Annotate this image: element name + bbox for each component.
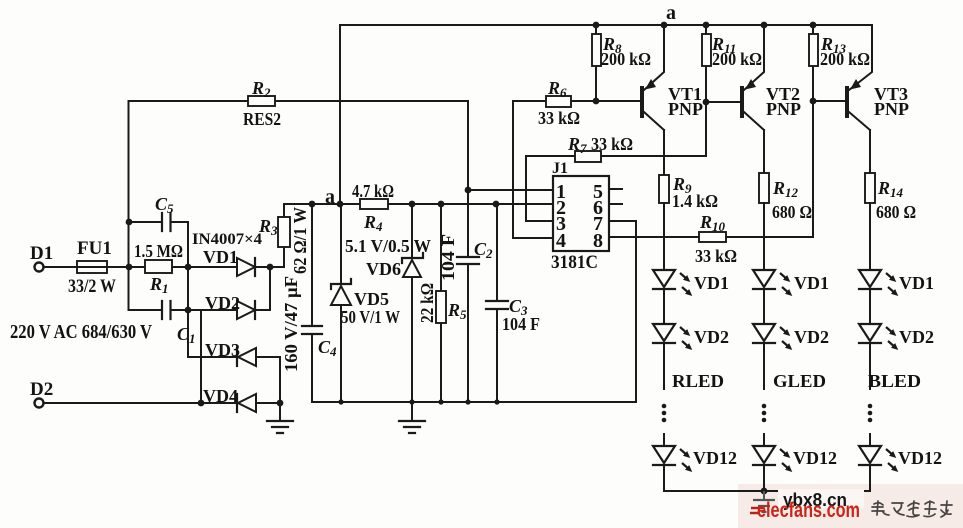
node a row (wire from R3 to IC pin 2) (284, 203, 553, 205)
svg-text:680 Ω: 680 Ω (772, 202, 812, 222)
svg-text:VD5: VD5 (354, 289, 389, 309)
capacitor C3 104F (496, 204, 498, 402)
wire pin 7 to supply rail (609, 221, 636, 402)
wire R2 right end down to pin 1 row (467, 101, 469, 256)
wire fuse to R1 node (107, 266, 129, 268)
junction return/ground (761, 488, 768, 495)
wire LED return rail (664, 490, 870, 492)
wire VD2 node down to D2 line (200, 310, 202, 403)
svg-text:PNP: PNP (874, 99, 909, 119)
zener diode VD6 5.1V/0.5W (411, 204, 413, 402)
svg-text:BLED: BLED (868, 371, 921, 391)
LED VD2 (green string) (753, 324, 775, 341)
svg-text:680 Ω: 680 Ω (876, 202, 916, 222)
resistor R1 1.5 MOhm (129, 266, 188, 268)
svg-text:PNP: PNP (668, 99, 703, 119)
node dots column 1 (662, 404, 667, 409)
svg-text:FU1: FU1 (77, 238, 112, 259)
watermark background tint (738, 484, 963, 528)
svg-text:200 kΩ: 200 kΩ (601, 49, 651, 69)
wire VT3 base row (813, 100, 845, 102)
svg-text:D2: D2 (30, 379, 53, 400)
svg-text:8: 8 (593, 230, 603, 252)
resistor R7 33k (526, 102, 706, 156)
resistor R2 RES2 (129, 100, 469, 102)
LED VD12 (blue string) (869, 434, 871, 446)
label Chinese watermark strokes (872, 501, 952, 517)
svg-text:200 kΩ: 200 kΩ (820, 49, 870, 69)
svg-text:D1: D1 (30, 243, 53, 264)
resistor R14 680 (865, 173, 875, 203)
svg-text:VD1: VD1 (694, 273, 729, 293)
svg-text:RES2: RES2 (243, 109, 281, 129)
resistor R10 33k (699, 232, 726, 242)
junction R11/R7/VT2 base (703, 99, 710, 106)
svg-text:VD1: VD1 (899, 273, 934, 293)
svg-text:1.5 MΩ: 1.5 MΩ (134, 241, 183, 261)
resistor R12 680 (759, 173, 769, 203)
svg-text:33/2 W: 33/2 W (68, 276, 116, 297)
ground (LED return) (763, 491, 765, 499)
svg-text:VD2: VD2 (794, 327, 829, 347)
svg-text:5.1 V/0.5 W: 5.1 V/0.5 W (345, 236, 431, 256)
svg-text:VD2: VD2 (899, 327, 934, 347)
terminal D2 (35, 399, 44, 408)
svg-text:220 V AC 684/630 V: 220 V AC 684/630 V (10, 322, 152, 343)
capacitor C2 104F (467, 264, 469, 402)
svg-text:GLED: GLED (773, 371, 826, 391)
resistor R6 33k (513, 100, 640, 102)
svg-text:a: a (325, 186, 335, 208)
wire D1 to fuse (44, 266, 77, 268)
svg-text:J1: J1 (552, 160, 568, 177)
LED VD12 (red string) (663, 434, 665, 446)
diode VD2 (188, 267, 270, 310)
svg-text:33 kΩ: 33 kΩ (591, 134, 633, 154)
svg-text:VD12: VD12 (693, 448, 737, 468)
svg-text:33 kΩ: 33 kΩ (538, 108, 580, 128)
svg-text:IN4007×4: IN4007×4 (192, 231, 262, 248)
op-amp U1 J1 3181C IC body (553, 176, 609, 251)
wire R10 to VT3 base (726, 101, 813, 237)
resistor R11 200k (705, 25, 707, 102)
LED VD2 (red string) (653, 324, 675, 341)
junction R13/R10/VT3 base (810, 98, 817, 105)
zener diode VD5 50V/1W (340, 204, 342, 402)
junction C1/VD2 node (185, 307, 192, 314)
svg-text:4: 4 (556, 230, 566, 252)
capacitor C5 (129, 221, 188, 223)
capacitor C4 160V/47uF (311, 204, 313, 402)
node dots column 2 (762, 404, 767, 409)
svg-text:VD2: VD2 (694, 327, 729, 347)
label ybx8.cn watermark (778, 489, 864, 508)
ground (rectifier negative) (267, 421, 293, 433)
svg-text:50 V/1 W: 50 V/1 W (341, 307, 400, 327)
wire vertical from top rail to node a row (339, 25, 341, 204)
svg-text:elecfans.com: elecfans.com (757, 499, 860, 522)
svg-text:VD12: VD12 (793, 448, 837, 468)
svg-text:VD1: VD1 (794, 273, 829, 293)
junction VD4 anode (277, 400, 284, 407)
resistor R13 200k (812, 25, 814, 101)
resistor R5 22k (440, 204, 442, 402)
svg-text:a: a (666, 2, 676, 24)
svg-text:3181C: 3181C (551, 252, 598, 273)
LED VD1 (red string) (653, 270, 675, 287)
svg-text:104 F: 104 F (502, 314, 540, 334)
wire R6 to pin 4 (513, 101, 553, 238)
resistor R4 4.7k (360, 199, 388, 209)
wire VD3/VD4 anodes to ground (279, 357, 281, 421)
resistor R3 62 Ohm/1W (283, 204, 285, 267)
svg-text:RLED: RLED (672, 371, 724, 391)
junction rail joints (338, 399, 343, 404)
junction pin1/R2 (465, 187, 472, 194)
wire left vertical R2 end down through C5 R1 C1 (128, 101, 130, 310)
LED VD2 (blue string) (859, 324, 881, 341)
wire rectifier input vertical (187, 222, 189, 357)
wire pin 8 row (609, 236, 699, 238)
svg-text:VD2: VD2 (205, 293, 240, 313)
svg-text:VD1: VD1 (203, 247, 238, 267)
svg-text:200 kΩ: 200 kΩ (712, 49, 762, 69)
LED VD1 (green string) (753, 270, 775, 287)
wire pin 6 stub (609, 203, 622, 205)
svg-text:4.7 kΩ: 4.7 kΩ (352, 181, 394, 201)
junction R8/R6/VT1 base (593, 98, 600, 105)
wire D2 to VD4 (44, 402, 201, 404)
LED VD12 (green string) (763, 434, 765, 446)
svg-text:62 Ω/1 W: 62 Ω/1 W (290, 207, 310, 274)
LED VD1 (blue string) (859, 270, 881, 287)
svg-text:PNP: PNP (766, 99, 801, 119)
wire bottom rail of supply section (312, 401, 636, 403)
svg-text:104 F: 104 F (438, 234, 458, 281)
wire top supply rail (340, 24, 872, 26)
transistor Q3 VT3 PNP (845, 86, 849, 118)
svg-text:VD3: VD3 (205, 340, 240, 360)
svg-text:1.4 kΩ: 1.4 kΩ (672, 191, 718, 211)
diode VD3 (188, 356, 280, 358)
wire pin 1 row (468, 189, 553, 191)
wire R7 to pin 3 (526, 156, 553, 221)
svg-text:160 V/47 µF: 160 V/47 µF (281, 276, 301, 372)
wire pin 5 stub (609, 188, 622, 190)
diode VD4 (201, 402, 280, 404)
junction D2/VD4 (198, 400, 205, 407)
label elecfans.com watermark (750, 508, 763, 513)
junction VD1/VD2 cathodes to R3 (267, 264, 274, 271)
wire VT2 base row (706, 101, 740, 103)
terminal D1 (35, 263, 44, 272)
transistor Q1 VT1 PNP (640, 86, 644, 118)
fuse FU1 33/2 W (77, 261, 107, 273)
resistor R8 200k (595, 25, 597, 101)
junction fuse/R1/C5 node (126, 264, 133, 271)
svg-text:VD12: VD12 (898, 448, 942, 468)
junction C4 column (309, 201, 316, 208)
svg-text:33 kΩ: 33 kΩ (695, 246, 737, 266)
svg-text:22 kΩ: 22 kΩ (417, 283, 437, 323)
diode VD1 (188, 266, 284, 268)
svg-text:VD6: VD6 (366, 259, 401, 279)
transistor Q2 VT2 PNP (740, 86, 744, 118)
capacitor C1 (129, 309, 188, 311)
ground (supply rail) (411, 402, 413, 421)
junction VD1 anode node (185, 264, 192, 271)
node dots column 3 (868, 404, 873, 409)
svg-text:VD4: VD4 (203, 386, 238, 406)
resistor R9 1.4k (659, 175, 669, 203)
